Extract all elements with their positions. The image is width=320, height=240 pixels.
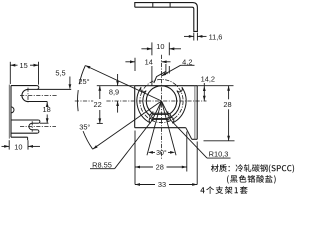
dimension 8,9 upper arrow line: [117, 74, 119, 86]
dimension 5,5 arrow line: [69, 77, 71, 89]
left view: emboss dimple on back face: [11, 107, 14, 113]
label R10,3 underline: [207, 157, 231, 159]
dimension 14 left extension line: [134, 58, 136, 71]
dimension 10 right arrowhead: [28, 145, 33, 148]
top view: bent strap profile outline: [135, 3, 198, 32]
dimension 18 line upper segment: [46, 102, 48, 105]
left view: bottom front corner edge: [27, 137, 29, 140]
note: 4 brackets 1 set: [200, 186, 247, 194]
left view: back face outer edge: [8, 85, 10, 139]
front view: bottom slot inner outline: [152, 114, 170, 118]
left view: top edge: [11, 85, 37, 87]
front view: plate right edge: [196, 86, 198, 140]
front view: right arc slot inner edge: [170, 91, 180, 118]
dimension 4,2 underline: [181, 64, 195, 66]
left view: upper slot top line: [28, 88, 71, 90]
left view: upper slot horizontal centerline: [20, 95, 57, 97]
top view: tab slot edge tick left: [152, 3, 154, 8]
front view: left arc slot upper end cap: [141, 87, 146, 92]
left view: lower slot horizontal centerline: [20, 126, 56, 128]
front view: 30 degree wedge left line: [147, 101, 162, 155]
dimension 33 left arrowhead: [135, 183, 140, 186]
dimension 18 upper arrowhead: [46, 102, 49, 107]
front view: slot centerline circle: [140, 79, 183, 122]
svg-text:10: 10: [156, 42, 164, 51]
front view: bottom-right step diagonal: [186, 128, 192, 140]
dimension 14,2 upper arrowhead: [203, 86, 206, 91]
dimension 18 lower arrowhead: [46, 118, 49, 123]
left view: upper slot rounded end: [22, 89, 28, 101]
dimension 10 top left arrowhead: [147, 47, 152, 50]
note: material cold-rolled carbon steel SPCC: [211, 164, 294, 173]
front view: 35 degree tilt line: [93, 101, 162, 149]
left view: bottom edge: [11, 136, 28, 138]
dimension 15 left arrowhead: [10, 64, 15, 67]
dimension 30 right arrowhead: [170, 151, 175, 154]
dimension 28 bottom left arrowhead: [135, 166, 140, 169]
front view: 25 degree tilt line: [85, 66, 161, 101]
dimension 30 right arrow line: [168, 151, 172, 153]
dimension 10 top right arrowhead: [169, 47, 174, 50]
dimension 10 top left ext: [151, 66, 153, 86]
front view: bent top tab side edge: [165, 64, 167, 72]
front view: left arc slot lower end cap: [149, 117, 153, 123]
dimension 22 lower arrowhead: [98, 118, 101, 123]
left view: upper slot bottom line: [28, 101, 47, 103]
angular dimension arc middle segment: [77, 90, 80, 111]
dimension 10 left arrowhead: [4, 145, 9, 148]
dimension 14 right arrowhead: [162, 60, 167, 63]
angular dimension arc end arrowhead 35: [93, 145, 98, 149]
dimension 11,6 left extension tick: [193, 33, 195, 41]
dimension 18 line lower segment: [46, 115, 48, 124]
dimension 22 upper arrowhead: [98, 86, 101, 91]
dimension 14 line left arrow: [125, 61, 135, 63]
angular dimension arc lower segment: [83, 131, 93, 149]
svg-text:18: 18: [42, 105, 50, 114]
dimension 10 left extension tick: [8, 140, 10, 149]
dimension 28 bottom left ext line: [134, 131, 136, 185]
dimension 14,2 lower arrowhead: [203, 96, 206, 101]
front view: plate bottom edge: [135, 127, 186, 129]
dimension 10 left arrow line: [2, 145, 10, 147]
dimension 22 bottom tick: [97, 122, 103, 124]
dimension 33 right arrowhead: [192, 183, 197, 186]
svg-text:14: 14: [145, 58, 153, 67]
dimension 28 bottom right ext line: [186, 132, 188, 172]
dimension 4,2 leader arrowhead: [161, 73, 166, 77]
dimension 28 bottom right arrowhead: [182, 166, 187, 169]
dimension 8,9 lower arrowhead: [116, 101, 119, 106]
front view: right arc slot outer edge: [172, 87, 186, 123]
top view: tab slot edge tick right: [169, 3, 171, 8]
svg-text:30°: 30°: [156, 149, 167, 157]
front view: top edge extension line left: [97, 85, 135, 87]
dimension 11,6 left arrowhead: [189, 35, 194, 38]
dimension 22 line lower segment: [99, 110, 101, 123]
left view: top leg rounded tip: [37, 86, 39, 90]
dimension 30 left arrowhead: [148, 151, 153, 154]
dimension 10 top left tick: [151, 42, 153, 55]
svg-text:28: 28: [223, 100, 231, 109]
front view: right flange fold line: [194, 86, 196, 140]
front view: plate left edge: [134, 86, 136, 128]
dimension 11,6 right extension tick: [196, 33, 198, 41]
dimension 10 right extension tick: [27, 140, 29, 149]
dimension 33 right ext line: [196, 142, 198, 185]
dimension 11,6 left arrow line: [184, 35, 194, 37]
dimension 5,5 arrowhead: [69, 84, 72, 89]
left view: lower leg upper fold cap: [38, 120, 40, 123]
dimension 28 bottom line right: [167, 166, 187, 168]
svg-text:28: 28: [156, 163, 164, 172]
left view: lower slot rounded end: [29, 123, 32, 130]
note: black chromate: [227, 175, 276, 184]
dimension 10 top right arrow line: [169, 48, 181, 50]
svg-text:10: 10: [14, 142, 22, 151]
dimension 15 left extension line: [9, 62, 11, 84]
svg-text:8,9: 8,9: [109, 88, 119, 97]
dimension 14,2 line: [203, 83, 205, 101]
dimension 8,9 lower arrow line: [117, 101, 119, 113]
front view: top edge extension line right: [197, 85, 233, 87]
svg-text:R8.55: R8.55: [92, 161, 112, 170]
svg-text:33: 33: [158, 180, 166, 189]
left view: lower slot bottom line: [32, 129, 37, 131]
left view: back face inner edge: [10, 86, 12, 138]
angular dimension arc end arrowhead 25: [85, 66, 90, 69]
dimension 28 right upper arrowhead: [227, 86, 230, 91]
dimension 15 line right segment: [30, 64, 39, 66]
dimension 30 left arrow line: [152, 151, 156, 153]
left view: lower slot vertical centerline: [31, 121, 33, 132]
svg-text:15: 15: [19, 61, 27, 70]
front view: right arc slot lower end cap: [170, 117, 174, 123]
dimension 11,6 right arrowhead: [197, 35, 202, 38]
front view: bottom ledge edge: [192, 138, 197, 140]
dimension 10 top left arrow line: [141, 48, 152, 50]
dimension 33 line left: [135, 184, 155, 186]
left view: upper slot vertical centerline: [27, 88, 29, 104]
front view: left arc slot inner edge: [143, 91, 153, 118]
svg-text:14,2: 14,2: [201, 75, 215, 84]
front view: bent top tab edge: [154, 72, 168, 83]
dimension 15 line left segment: [10, 64, 17, 66]
front view: left arc slot outer edge: [137, 87, 151, 123]
dimension 28 right line lower: [228, 109, 230, 141]
dimension 10 top right ext: [168, 66, 170, 74]
dimension 14 left arrowhead: [130, 60, 135, 63]
svg-text:11,6: 11,6: [209, 32, 223, 41]
front view: bottom slot right cap centerline: [167, 111, 169, 121]
dimension 33 line right: [169, 184, 197, 186]
leader R10,3 line: [162, 101, 208, 158]
dimension 28 right line upper: [228, 86, 230, 100]
dimension 8,9 upper arrowhead: [116, 81, 119, 86]
dimension 14 right arrow line: [162, 61, 171, 63]
left view: lower leg bottom line: [11, 132, 37, 134]
svg-text:35°: 35°: [79, 122, 90, 131]
front view: bottom slot left cap centerline: [152, 111, 154, 121]
front view: horizontal centerline main segment: [106, 100, 206, 102]
front view: bottom slot outer outline: [150, 113, 171, 119]
front view: plate top edge: [135, 85, 198, 87]
front view: right arc slot upper end cap: [177, 87, 182, 92]
svg-text:22: 22: [93, 100, 101, 109]
left view: lower leg upper line: [11, 119, 38, 121]
angular dimension arc upper segment: [79, 66, 85, 85]
dimension 15 right arrowhead: [34, 64, 39, 67]
dimension 22 line upper segment: [99, 86, 101, 99]
dimension 10 right arrow line: [28, 145, 40, 147]
front view: vertical centerline: [161, 55, 163, 159]
front view: 30 degree wedge right line: [162, 101, 177, 155]
svg-text:25°: 25°: [78, 77, 89, 86]
dimension 15 right extension line: [38, 62, 40, 85]
dimension 28 bottom line left: [135, 166, 153, 168]
left view: lower leg lower fold cap: [37, 130, 39, 133]
dimension 4,2 leader line: [161, 65, 180, 76]
front view: central mounting hole: [146, 86, 176, 116]
label R8.55 underline: [90, 168, 115, 170]
leader R8.55 line: [115, 101, 162, 169]
dimension 18 lower reference extension: [40, 122, 49, 124]
front view: horizontal centerline left segment: [75, 100, 93, 102]
dimension 28 right ext bottom: [204, 140, 235, 142]
svg-text:5,5: 5,5: [55, 68, 65, 77]
dimension 10 top right tick: [168, 42, 170, 55]
left view: lower slot top line: [32, 122, 38, 124]
dimension 28 right lower arrowhead: [227, 136, 230, 141]
dimension 11,6 right arrow line: [197, 35, 206, 37]
svg-text:R10,3: R10,3: [209, 150, 229, 159]
